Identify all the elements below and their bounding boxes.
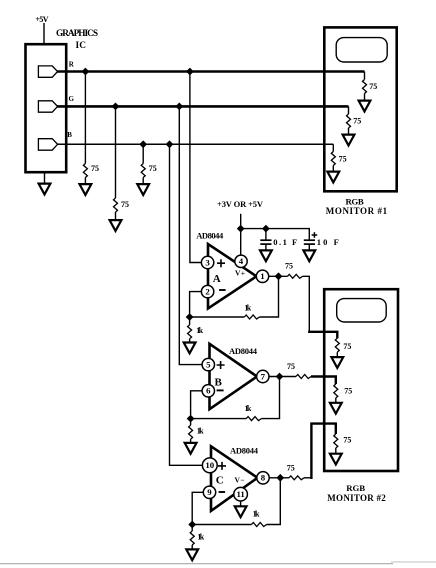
- resistor 1k B to ground: [189, 425, 193, 439]
- pin 11: [234, 487, 248, 501]
- svg-text:RGB: RGB: [346, 483, 365, 493]
- svg-text:75: 75: [343, 342, 351, 351]
- resistor 1k C to ground: [190, 531, 194, 545]
- capacitor 0.1uF: [260, 229, 297, 251]
- label RGB MONITOR #1: [326, 196, 388, 216]
- wire B feedback right: [261, 377, 279, 419]
- node supply junction: [237, 225, 245, 233]
- svg-text:1k: 1k: [197, 426, 204, 435]
- ground monitor1 G: [343, 128, 355, 145]
- wire B 1k ground stub: [190, 419, 192, 426]
- graphics IC box: [26, 44, 67, 172]
- svg-text:AD8044: AD8044: [196, 230, 224, 240]
- svg-text:75: 75: [287, 362, 295, 371]
- op-amp U1B triangle: [210, 344, 258, 409]
- resistor 75 C output: [289, 476, 304, 480]
- wire B line: [57, 143, 333, 145]
- buffer R: [38, 66, 57, 77]
- wire C monitor2 entry riser: [311, 424, 335, 479]
- wire B feedback left: [191, 418, 247, 420]
- node B junction 2: [166, 140, 174, 148]
- wire monitor2 R drop: [336, 337, 338, 338]
- wire C feedback right: [267, 478, 281, 525]
- svg-text:V−: V−: [235, 476, 245, 485]
- op-amp U1C triangle: [211, 446, 258, 511]
- ground monitor1 R: [359, 94, 371, 112]
- wire G termination drop: [115, 106, 117, 198]
- resistor 75 monitor1 G: [347, 114, 351, 128]
- op-amp U1A triangle: [208, 244, 257, 309]
- wire pin9 to feedback node: [192, 492, 203, 524]
- monitor #2 box: [324, 289, 398, 471]
- ground B termination: [137, 178, 149, 195]
- wire supply stub to pin4: [240, 214, 242, 255]
- svg-text:+5V: +5V: [36, 15, 49, 24]
- node B junction 1: [139, 140, 147, 148]
- ground G termination: [110, 212, 122, 231]
- node G junction 2: [175, 103, 183, 111]
- ground R termination: [80, 178, 92, 195]
- resistor 75 A output: [288, 274, 303, 278]
- svg-text:75: 75: [353, 117, 361, 126]
- svg-text:7: 7: [261, 371, 266, 381]
- buffer G: [38, 101, 57, 112]
- op-amp B minus sign: [217, 389, 224, 391]
- wire supply rail: [241, 229, 310, 240]
- resistor 1k B feedback: [246, 417, 261, 421]
- svg-text:75: 75: [149, 164, 157, 173]
- ground cap 0.1uF: [260, 250, 272, 261]
- resistor 75 G termination: [114, 198, 118, 212]
- svg-text:1k: 1k: [196, 326, 203, 335]
- ground C 1k: [186, 545, 198, 560]
- wire A output: [269, 275, 288, 277]
- svg-text:5: 5: [206, 359, 211, 369]
- svg-text:75: 75: [91, 164, 99, 173]
- svg-text:RGB: RGB: [346, 196, 364, 206]
- svg-text:10: 10: [205, 460, 214, 470]
- bottom separator line right: [391, 561, 436, 563]
- wire R termination drop: [84, 72, 86, 164]
- op-amp B plus sign: [217, 361, 225, 369]
- wire C feedback left: [192, 524, 251, 526]
- op-amp A minus sign: [219, 289, 226, 291]
- node R junction 1: [82, 68, 90, 76]
- svg-text:C: C: [216, 475, 224, 487]
- pin 3: [201, 256, 213, 268]
- resistor 75 monitor1 R: [363, 80, 367, 94]
- svg-text:1k: 1k: [197, 533, 204, 542]
- svg-text:75: 75: [285, 262, 293, 271]
- svg-text:9: 9: [207, 487, 212, 497]
- node G junction 1: [112, 103, 120, 111]
- resistor 75 monitor1 B: [331, 152, 335, 166]
- svg-text:8: 8: [261, 473, 266, 483]
- pin 10: [202, 458, 217, 473]
- wire A monitor2 entry: [308, 332, 337, 338]
- op-amp C plus sign: [218, 462, 226, 470]
- pin 4: [235, 255, 247, 267]
- ground monitor1 B: [327, 166, 339, 183]
- svg-text:G: G: [69, 95, 75, 103]
- svg-text:3: 3: [205, 257, 210, 267]
- node B output junction: [276, 373, 284, 381]
- svg-text:75: 75: [344, 386, 352, 395]
- pin 5: [202, 358, 214, 370]
- node rail cap junction: [262, 225, 270, 233]
- pin 7: [257, 370, 269, 382]
- resistor 75 R termination: [83, 164, 87, 178]
- svg-text:75: 75: [343, 436, 351, 445]
- monitor #1 box: [324, 27, 396, 191]
- resistor 1k C feedback: [252, 523, 267, 527]
- monitor #1 screen: [336, 38, 387, 62]
- wire B termination drop: [142, 144, 144, 163]
- ground monitor2 B: [330, 448, 342, 465]
- svg-text:75: 75: [339, 155, 347, 164]
- node C output junction: [276, 474, 284, 482]
- svg-text:2: 2: [205, 286, 210, 296]
- wire +5V stub: [43, 23, 45, 44]
- svg-text:1k: 1k: [245, 404, 252, 413]
- svg-text:MONITOR #2: MONITOR #2: [327, 493, 386, 503]
- wire pin2 to feedback node: [190, 292, 202, 317]
- wire R to op-amp A input: [190, 72, 202, 263]
- svg-text:1: 1: [260, 271, 264, 281]
- svg-text:75: 75: [121, 200, 129, 209]
- wire pin6 to feedback node: [191, 391, 203, 419]
- svg-text:GRAPHICS: GRAPHICS: [56, 29, 98, 39]
- bottom separator line left: [0, 563, 393, 565]
- resistor 75 monitor2 G: [334, 384, 338, 398]
- ground B 1k: [185, 439, 197, 453]
- svg-text:+3V OR +5V: +3V OR +5V: [217, 199, 264, 209]
- svg-text:1k: 1k: [253, 510, 260, 519]
- capacitor 10uF polarized: [304, 232, 339, 250]
- pin 9: [203, 486, 215, 498]
- wire R line: [57, 70, 365, 73]
- svg-text:IC: IC: [76, 41, 87, 51]
- wire monitor1 G input drop: [348, 106, 350, 114]
- svg-text:AD8044: AD8044: [230, 446, 259, 456]
- wire monitor1 R input drop: [364, 72, 366, 80]
- node R junction 2: [186, 68, 194, 76]
- ground monitor2 G: [330, 398, 342, 414]
- pin 2: [201, 285, 213, 297]
- resistor 1k A to ground: [188, 325, 192, 339]
- svg-text:MONITOR #1: MONITOR #1: [326, 206, 388, 216]
- node A output junction: [275, 272, 283, 280]
- wire C 1k ground stub: [191, 525, 193, 532]
- wire C output to monitor2: [304, 477, 311, 479]
- svg-text:75: 75: [369, 82, 377, 91]
- op-amp A plus sign: [217, 259, 225, 267]
- ground pin 11: [235, 501, 247, 517]
- svg-text:4: 4: [239, 256, 244, 266]
- svg-text:75: 75: [287, 463, 295, 472]
- svg-text:V+: V+: [235, 268, 245, 277]
- pin 1: [256, 270, 268, 282]
- wire A feedback left: [190, 316, 245, 318]
- buffer B: [38, 139, 57, 151]
- node B feedback: [187, 415, 195, 423]
- wire G to op-amp B input: [179, 106, 202, 364]
- pin 6: [202, 385, 214, 397]
- ground cap 10uF: [303, 250, 315, 261]
- resistor 75 monitor2 B: [334, 434, 338, 448]
- svg-text:0.1 F: 0.1 F: [273, 237, 297, 247]
- op-amp C minus sign: [219, 491, 226, 493]
- wire G line: [57, 105, 349, 108]
- svg-text:6: 6: [206, 386, 211, 396]
- resistor 75 B output: [296, 375, 311, 379]
- ground IC: [39, 172, 51, 194]
- svg-text:1k: 1k: [244, 304, 251, 313]
- resistor 75 B termination: [141, 164, 145, 178]
- node C feedback: [188, 521, 196, 529]
- svg-text:B: B: [67, 131, 72, 139]
- resistor 75 monitor2 R: [335, 338, 339, 352]
- label RGB MONITOR #2: [327, 483, 386, 503]
- wire C output: [269, 477, 289, 479]
- label GRAPHICS IC: [56, 29, 98, 51]
- svg-text:A: A: [213, 273, 221, 285]
- wire A 1k ground stub: [189, 317, 191, 325]
- wire A output to monitor2: [303, 276, 310, 332]
- pin 8: [257, 472, 269, 484]
- svg-text:B: B: [215, 377, 223, 389]
- ground A 1k: [184, 339, 196, 354]
- svg-text:AD8044: AD8044: [229, 346, 258, 356]
- node A feedback: [186, 313, 194, 321]
- wire B monitor2 entry: [311, 377, 336, 385]
- ground monitor2 R: [331, 352, 343, 368]
- wire A feedback right: [259, 276, 278, 317]
- wire B output: [269, 376, 296, 378]
- resistor 1k A feedback: [244, 315, 259, 319]
- svg-text:11: 11: [236, 489, 244, 499]
- wire B to op-amp C input: [170, 144, 203, 465]
- monitor #2 screen: [337, 299, 387, 322]
- wire monitor1 B input drop: [332, 144, 334, 151]
